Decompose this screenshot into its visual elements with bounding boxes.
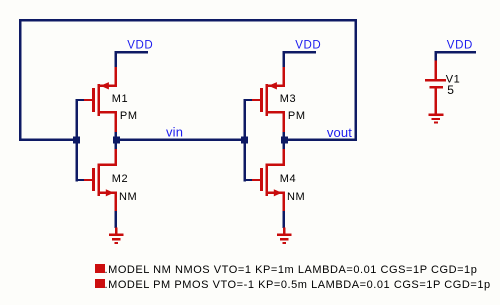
svg-text:.MODEL NM NMOS VTO=1 KP=1m LAM: .MODEL NM NMOS VTO=1 KP=1m LAMBDA=0.01 C… <box>105 264 478 276</box>
svg-text:M4: M4 <box>280 173 296 185</box>
wire: gate stub to M4 <box>244 179 253 181</box>
wire: feedback right vertical (vout down) <box>355 19 358 141</box>
ground symbol below M4 <box>277 228 292 245</box>
wire: VDD stub horizontal (V1) <box>434 51 476 54</box>
svg-text:VDD: VDD <box>127 40 153 52</box>
wire: VDD stub vertical down to V1 <box>434 51 437 61</box>
wire: gate stub to M2 <box>76 179 85 181</box>
label .MODEL PM marker square <box>95 279 105 288</box>
transistor M2 (NMOS) <box>84 149 117 211</box>
wire: gate stub to M1 <box>76 99 85 101</box>
svg-text:M3: M3 <box>280 93 296 105</box>
wire: M3 drain to output node <box>282 131 285 137</box>
wire: output node to M2 drain <box>114 143 117 150</box>
wire: M1 drain to output node <box>114 131 117 137</box>
wire: feedback bottom-left horizontal to gate bus <box>19 139 77 142</box>
svg-text:5: 5 <box>447 83 454 97</box>
svg-text:vout: vout <box>327 125 352 140</box>
ground symbol below V1 <box>429 113 444 123</box>
wire: VDD stub horizontal (M3) <box>283 51 317 54</box>
svg-text:VDD: VDD <box>295 40 321 52</box>
wire: M2 source to ground <box>114 211 117 228</box>
svg-text:vin: vin <box>166 125 183 140</box>
wire: vin net (stage1 drains to stage2 gates) <box>115 139 246 142</box>
voltage source V1 (battery) <box>425 61 446 115</box>
label .MODEL NM marker square <box>95 264 105 273</box>
wire: M4 source to ground <box>282 211 285 228</box>
svg-text:M2: M2 <box>112 173 128 185</box>
node: junction at M3/M4 drains (vout) <box>281 137 288 144</box>
svg-text:M1: M1 <box>112 93 128 105</box>
wire: output node to M4 drain <box>282 143 285 150</box>
transistor M4 (NMOS) <box>252 149 285 211</box>
node: junction at M3/M4 gate bus <box>241 137 248 144</box>
wire: vout net (stage2 drains to right vertical) <box>283 139 357 142</box>
svg-text:PM: PM <box>120 110 138 122</box>
wire: VDD stub vertical down to M1 source <box>115 51 118 68</box>
wire: VDD stub horizontal (M1) <box>115 51 149 54</box>
node: junction at M1/M2 drains (vin) <box>113 137 120 144</box>
svg-text:.MODEL PM PMOS VTO=-1 KP=0.5m: .MODEL PM PMOS VTO=-1 KP=0.5m LAMBDA=0.0… <box>105 279 491 291</box>
wire: gate bus vertical (M3/M4 gates) <box>244 99 247 182</box>
node: junction at M1/M2 gate bus <box>73 137 80 144</box>
wire: VDD stub vertical down to M3 source <box>283 51 286 68</box>
transistor M3 (PMOS) <box>252 67 285 132</box>
wire: gate bus vertical (M1/M2 gates) <box>76 99 79 182</box>
svg-text:VDD: VDD <box>447 40 473 52</box>
wire: feedback left vertical <box>19 19 22 141</box>
svg-text:PM: PM <box>288 110 306 122</box>
transistor M1 (PMOS) <box>84 67 117 132</box>
svg-text:NM: NM <box>287 191 305 203</box>
ground symbol below M2 <box>109 228 124 245</box>
wire: feedback top horizontal <box>19 19 357 22</box>
wire: gate stub to M3 <box>244 99 253 101</box>
svg-text:NM: NM <box>119 191 137 203</box>
